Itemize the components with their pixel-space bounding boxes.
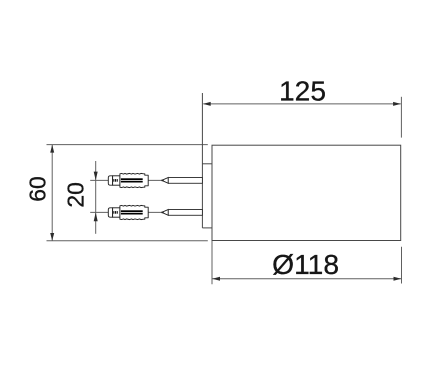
svg-text:60: 60 bbox=[25, 176, 51, 202]
svg-text:125: 125 bbox=[279, 75, 326, 107]
svg-text:20: 20 bbox=[62, 182, 88, 208]
svg-text:Ø118: Ø118 bbox=[272, 248, 339, 280]
